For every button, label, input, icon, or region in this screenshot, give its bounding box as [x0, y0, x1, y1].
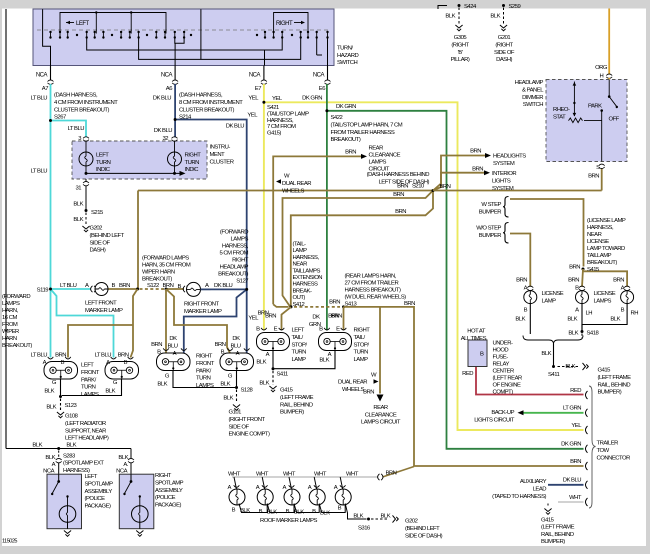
svg-text:BREAKOUT): BREAKOUT)	[142, 277, 172, 283]
svg-text:S424: S424	[464, 4, 477, 10]
svg-text:(RIGHT: (RIGHT	[495, 42, 513, 48]
svg-text:S422: S422	[331, 115, 343, 121]
svg-text:(POLICE: (POLICE	[155, 495, 176, 501]
svg-text:BLK: BLK	[353, 514, 363, 520]
svg-text:TURN: TURN	[292, 350, 307, 356]
svg-text:PARK/: PARK/	[81, 377, 97, 383]
svg-text:CLEARANCE: CLEARANCE	[365, 412, 397, 418]
svg-text:DK GRN: DK GRN	[302, 96, 322, 102]
svg-text:BLK: BLK	[45, 455, 55, 461]
svg-text:WHT: WHT	[256, 471, 269, 477]
svg-text:NCA: NCA	[313, 73, 325, 79]
svg-text:B: B	[575, 286, 579, 292]
svg-text:BRN: BRN	[215, 342, 226, 348]
svg-text:BUMPER): BUMPER)	[598, 390, 622, 396]
svg-text:PARK/: PARK/	[196, 368, 212, 374]
svg-text:LT BLU: LT BLU	[60, 283, 77, 289]
svg-text:HARNESS,: HARNESS,	[222, 244, 249, 250]
svg-text:BRN: BRN	[470, 149, 481, 155]
svg-text:LAMP: LAMP	[293, 248, 308, 254]
svg-text:B: B	[256, 327, 260, 333]
svg-text:ALL TIMES: ALL TIMES	[461, 336, 487, 342]
svg-text:BLK: BLK	[541, 351, 551, 357]
svg-text:BLK: BLK	[44, 389, 54, 395]
svg-text:LEFT: LEFT	[85, 474, 98, 480]
svg-text:HARNESS,: HARNESS,	[587, 225, 614, 231]
svg-text:BRN: BRN	[329, 300, 340, 306]
svg-text:4 CM FROM INSTRUMENT: 4 CM FROM INSTRUMENT	[54, 100, 118, 106]
svg-text:LAMPS CIRCUIT: LAMPS CIRCUIT	[361, 420, 401, 426]
svg-text:BLU: BLU	[231, 344, 241, 350]
svg-text:NEAR: NEAR	[293, 262, 308, 268]
svg-text:BLK: BLK	[118, 455, 128, 461]
svg-text:G415: G415	[598, 368, 612, 374]
svg-text:WHT: WHT	[228, 471, 241, 477]
svg-text:LICENSE: LICENSE	[594, 291, 616, 297]
svg-text:BLU: BLU	[168, 344, 178, 350]
svg-text:(TAIL/STOP LAMP: (TAIL/STOP LAMP	[267, 111, 309, 117]
svg-text:BREAKOUT): BREAKOUT)	[331, 137, 361, 143]
svg-text:BLK: BLK	[490, 14, 500, 20]
svg-text:RIGHT: RIGHT	[196, 354, 213, 360]
svg-text:DUAL REAR: DUAL REAR	[338, 380, 367, 386]
svg-text:TAIL/: TAIL/	[292, 335, 304, 341]
svg-text:B: B	[232, 508, 236, 514]
svg-text:31: 31	[75, 186, 81, 192]
svg-text:A: A	[173, 351, 177, 357]
svg-text:BACK-UP: BACK-UP	[491, 410, 514, 416]
svg-text:G305: G305	[454, 35, 468, 41]
svg-text:BRN: BRN	[440, 184, 451, 190]
svg-text:S215: S215	[91, 210, 104, 216]
svg-text:RAIL, BEHIND: RAIL, BEHIND	[541, 532, 574, 538]
svg-text:HOT AT: HOT AT	[467, 329, 486, 335]
svg-text:BRN: BRN	[386, 471, 397, 477]
svg-text:A: A	[283, 485, 287, 491]
svg-text:S: S	[596, 165, 600, 171]
svg-text:LEAD: LEAD	[533, 486, 547, 492]
svg-text:ROOF MARKER LAMPS: ROOF MARKER LAMPS	[260, 518, 318, 524]
svg-text:SIDE OF: SIDE OF	[494, 50, 515, 56]
svg-text:(DASH HARNESS BEHIND: (DASH HARNESS BEHIND	[367, 172, 430, 178]
svg-text:BLK: BLK	[223, 396, 233, 402]
svg-text:B: B	[157, 350, 161, 356]
svg-text:(W DUEL REAR WHEELS): (W DUEL REAR WHEELS)	[345, 295, 407, 301]
svg-text:NCA: NCA	[43, 469, 55, 475]
svg-text:WHT: WHT	[314, 471, 327, 477]
svg-text:UNDER-: UNDER-	[493, 341, 513, 347]
svg-text:RAIL, BEHIND: RAIL, BEHIND	[280, 402, 313, 408]
svg-text:BRN: BRN	[472, 167, 483, 173]
svg-text:YEL: YEL	[571, 423, 582, 429]
svg-text:TURN: TURN	[81, 385, 96, 391]
svg-text:(POLICE: (POLICE	[85, 496, 106, 502]
svg-text:CENTER: CENTER	[493, 369, 514, 375]
svg-text:WHT: WHT	[569, 495, 582, 501]
svg-text:B: B	[480, 352, 484, 358]
svg-text:BRN: BRN	[395, 209, 406, 215]
svg-text:HEADLIGHTS: HEADLIGHTS	[493, 154, 526, 160]
svg-text:LAMP: LAMP	[292, 357, 307, 363]
svg-text:TURN: TURN	[96, 160, 111, 166]
svg-text:(LEFT FRAME: (LEFT FRAME	[280, 395, 314, 401]
svg-text:LT BLU: LT BLU	[31, 96, 48, 102]
svg-text:NCA: NCA	[249, 73, 261, 79]
svg-text:ASSEMBLY: ASSEMBLY	[85, 489, 113, 495]
svg-text:SYSTEM: SYSTEM	[493, 161, 515, 167]
svg-text:TOW: TOW	[597, 448, 610, 454]
svg-text:W/O STEP: W/O STEP	[476, 226, 501, 232]
svg-text:BRN: BRN	[569, 265, 580, 271]
svg-text:BREAKOUT): BREAKOUT)	[218, 272, 248, 278]
svg-text:BRN: BRN	[397, 184, 408, 190]
svg-text:G101: G101	[229, 410, 242, 416]
svg-text:RIGHT: RIGHT	[276, 21, 293, 27]
svg-text:LEFT HEADLAMP): LEFT HEADLAMP)	[65, 436, 109, 442]
svg-text:HARN,: HARN,	[2, 308, 19, 314]
svg-text:BRN: BRN	[404, 301, 415, 307]
svg-text:HARNESS,: HARNESS,	[293, 255, 320, 261]
svg-text:STOP/: STOP/	[354, 342, 370, 348]
svg-text:S413: S413	[345, 302, 358, 308]
svg-text:(REAR LAMPS HARN,: (REAR LAMPS HARN,	[345, 274, 397, 280]
svg-text:A: A	[205, 283, 209, 289]
svg-text:CONNECTOR: CONNECTOR	[597, 455, 631, 461]
svg-text:W STEP: W STEP	[481, 202, 501, 208]
svg-text:CLUSTER BREAKOUT): CLUSTER BREAKOUT)	[179, 107, 235, 113]
svg-text:B: B	[338, 506, 342, 512]
svg-text:COMPT): COMPT)	[493, 390, 514, 396]
svg-text:(BEHIND LEFT: (BEHIND LEFT	[90, 233, 125, 239]
svg-text:WIPER: WIPER	[2, 329, 19, 335]
svg-text:S421: S421	[267, 105, 279, 111]
svg-text:B: B	[61, 360, 65, 366]
svg-text:RH: RH	[631, 311, 639, 317]
svg-text:DK: DK	[169, 336, 177, 342]
svg-text:BLK: BLK	[294, 510, 304, 516]
svg-text:HARNESS,: HARNESS,	[267, 118, 294, 124]
svg-text:TRAILER: TRAILER	[597, 441, 619, 447]
svg-text:FRONT: FRONT	[196, 361, 215, 367]
svg-text:BLK: BLK	[46, 405, 56, 411]
svg-text:TURN: TURN	[185, 160, 200, 166]
svg-text:TURN: TURN	[354, 350, 369, 356]
svg-text:DK GRN: DK GRN	[561, 442, 581, 448]
svg-text:BLK: BLK	[568, 331, 578, 337]
svg-text:OFF: OFF	[609, 117, 620, 123]
svg-text:RIGHT: RIGHT	[185, 153, 202, 159]
svg-text:BLK: BLK	[73, 202, 83, 208]
svg-text:BLK: BLK	[105, 389, 115, 395]
svg-text:16 CM: 16 CM	[2, 315, 17, 321]
svg-text:BRN: BRN	[55, 353, 66, 359]
svg-text:REAR: REAR	[373, 405, 388, 411]
svg-text:BRN: BRN	[613, 278, 624, 284]
svg-text:ORG: ORG	[595, 65, 608, 71]
svg-text:A: A	[228, 485, 232, 491]
svg-text:HARN: HARN	[2, 336, 17, 342]
svg-text:G108: G108	[65, 414, 79, 420]
svg-text:S128: S128	[241, 388, 254, 394]
svg-text:(LEFT REAR: (LEFT REAR	[493, 376, 523, 382]
svg-text:NCA: NCA	[116, 469, 128, 475]
svg-text:(SPOTLAMP EXT: (SPOTLAMP EXT	[63, 461, 104, 467]
svg-text:BLK: BLK	[73, 217, 83, 223]
svg-text:E7: E7	[255, 86, 261, 92]
svg-text:G201: G201	[498, 35, 511, 41]
svg-text:BLK: BLK	[381, 514, 391, 520]
svg-text:LEFT: LEFT	[81, 363, 94, 369]
svg-text:BLK: BLK	[220, 382, 230, 388]
svg-text:NCA: NCA	[161, 73, 173, 79]
svg-text:LAMP: LAMP	[354, 357, 369, 363]
svg-text:PACKAGE): PACKAGE)	[155, 503, 182, 509]
svg-text:BRN: BRN	[119, 283, 130, 289]
svg-text:RIGHT: RIGHT	[354, 328, 371, 334]
svg-text:G415: G415	[280, 388, 294, 394]
svg-text:BLK: BLK	[157, 382, 167, 388]
svg-text:A: A	[236, 351, 240, 357]
svg-text:A: A	[85, 283, 89, 289]
svg-text:S316: S316	[358, 526, 371, 532]
svg-text:DK: DK	[232, 336, 240, 342]
svg-text:LEFT: LEFT	[96, 153, 109, 159]
svg-text:CLUSTER: CLUSTER	[210, 160, 234, 166]
svg-text:AUXILIARY: AUXILIARY	[520, 479, 547, 485]
svg-text:HARN, 35 CM FROM: HARN, 35 CM FROM	[142, 263, 191, 269]
svg-text:115025: 115025	[2, 539, 17, 545]
svg-text:LAMPS: LAMPS	[594, 298, 612, 304]
svg-text:BRN: BRN	[570, 459, 581, 465]
svg-text:G415): G415)	[267, 131, 281, 137]
svg-text:REAR: REAR	[369, 146, 384, 152]
svg-text:TAILLAMPS: TAILLAMPS	[293, 268, 321, 274]
svg-text:27 CM FROM TRAILER: 27 CM FROM TRAILER	[345, 281, 399, 287]
svg-text:LT BLU: LT BLU	[31, 169, 48, 175]
svg-text:A: A	[256, 485, 260, 491]
svg-text:HEADLAMP: HEADLAMP	[220, 265, 249, 271]
svg-text:G202: G202	[90, 226, 103, 232]
svg-text:S210: S210	[412, 184, 425, 190]
svg-text:HAZARD: HAZARD	[337, 53, 358, 59]
svg-text:S283: S283	[63, 454, 76, 460]
svg-text:HEADLAMP: HEADLAMP	[515, 80, 544, 86]
svg-text:LH: LH	[586, 311, 593, 317]
svg-text:SIDE OF DASH): SIDE OF DASH)	[405, 533, 443, 539]
svg-text:ASSEMBLY: ASSEMBLY	[155, 488, 183, 494]
svg-text:DASH): DASH)	[496, 57, 512, 63]
svg-text:LEFT FRONT: LEFT FRONT	[85, 301, 117, 307]
svg-text:H: H	[600, 74, 604, 80]
svg-text:RIGHT: RIGHT	[155, 473, 172, 479]
svg-text:A: A	[575, 308, 579, 314]
svg-text:8 CM FROM INSTRUMENT: 8 CM FROM INSTRUMENT	[179, 100, 243, 106]
svg-text:BRN: BRN	[258, 311, 269, 317]
svg-text:S418: S418	[587, 331, 600, 337]
svg-text:B: B	[312, 509, 316, 515]
svg-text:BLK: BLK	[259, 381, 269, 387]
svg-text:CLUSTER BREAKOUT): CLUSTER BREAKOUT)	[54, 107, 110, 113]
svg-text:MENT: MENT	[210, 152, 226, 158]
svg-text:BLK: BLK	[610, 317, 620, 323]
svg-text:SPOTLAMP: SPOTLAMP	[155, 480, 184, 486]
svg-text:BUMPER): BUMPER)	[541, 539, 565, 545]
svg-text:OUT): OUT)	[293, 295, 306, 301]
svg-text:BLK: BLK	[445, 14, 455, 20]
svg-text:(RIGHT FRONT: (RIGHT FRONT	[229, 417, 266, 423]
svg-text:MARKER LAMP: MARKER LAMP	[184, 309, 222, 315]
svg-text:SWITCH: SWITCH	[523, 102, 543, 108]
svg-text:BRN: BRN	[588, 174, 599, 180]
svg-text:S411: S411	[548, 372, 560, 378]
svg-text:INSTRU-: INSTRU-	[210, 145, 231, 151]
svg-text:A: A	[308, 485, 312, 491]
svg-text:LAMPS: LAMPS	[231, 237, 249, 243]
svg-text:G202: G202	[405, 519, 418, 525]
svg-text:TURN/: TURN/	[337, 46, 353, 52]
svg-text:YEL: YEL	[248, 96, 259, 102]
svg-text:S411: S411	[277, 372, 289, 378]
svg-text:B: B	[621, 308, 625, 314]
svg-text:BLK: BLK	[319, 358, 329, 364]
svg-text:BRN: BRN	[393, 192, 404, 198]
svg-text:S259: S259	[509, 4, 521, 10]
svg-text:BLK: BLK	[256, 360, 266, 366]
svg-text:LEFT: LEFT	[76, 21, 90, 27]
svg-text:LT BLU: LT BLU	[68, 126, 85, 132]
svg-text:TURN: TURN	[196, 376, 211, 382]
svg-text:RED: RED	[570, 388, 581, 394]
svg-text:(TAIL/STOP LAMP HARN, 7 CM: (TAIL/STOP LAMP HARN, 7 CM	[331, 122, 403, 128]
svg-text:BRN: BRN	[345, 150, 356, 156]
svg-text:(LEFT RADIATOR: (LEFT RADIATOR	[65, 421, 106, 427]
svg-text:E: E	[274, 327, 278, 333]
svg-text:& PANEL: & PANEL	[522, 87, 544, 93]
svg-text:(TAPED TO HARNESS): (TAPED TO HARNESS)	[492, 494, 546, 500]
svg-text:SIDE OF: SIDE OF	[90, 240, 111, 246]
svg-text:LT BLU: LT BLU	[95, 353, 112, 359]
svg-text:BLK: BLK	[320, 511, 330, 517]
svg-text:B: B	[286, 509, 290, 515]
svg-text:DK BLU: DK BLU	[153, 96, 172, 102]
svg-text:BLK: BLK	[66, 443, 76, 449]
svg-text:STOP/: STOP/	[292, 342, 308, 348]
svg-text:LIGHTS CIRCUIT: LIGHTS CIRCUIT	[474, 417, 515, 423]
svg-text:S127: S127	[236, 279, 248, 285]
svg-text:A: A	[266, 352, 270, 358]
svg-text:(FORWARD: (FORWARD	[2, 294, 30, 300]
svg-text:LIGHTS: LIGHTS	[492, 178, 511, 184]
svg-text:DK BLU: DK BLU	[214, 283, 233, 289]
svg-text:BRN: BRN	[516, 278, 527, 284]
svg-text:BRN: BRN	[118, 353, 129, 359]
svg-text:CLEARANCE: CLEARANCE	[369, 153, 401, 159]
svg-text:BRN: BRN	[568, 278, 579, 284]
svg-text:A7: A7	[42, 86, 48, 92]
svg-text:OF ENGINE: OF ENGINE	[493, 383, 521, 389]
svg-text:INDIC: INDIC	[185, 167, 200, 173]
svg-text:(LEFT FRAME: (LEFT FRAME	[541, 525, 575, 531]
svg-text:S122: S122	[147, 283, 159, 289]
svg-text:SPOTLAMP: SPOTLAMP	[85, 481, 114, 487]
svg-text:SIDE OF: SIDE OF	[229, 424, 250, 430]
svg-text:FUSE-: FUSE-	[493, 355, 509, 361]
svg-text:RELAY: RELAY	[493, 362, 510, 368]
svg-text:(FORWARD LAMPS: (FORWARD LAMPS	[142, 256, 189, 262]
svg-text:'B': 'B'	[458, 50, 463, 56]
svg-text:(FORWARD: (FORWARD	[220, 230, 248, 236]
svg-text:BRN: BRN	[363, 390, 374, 396]
svg-text:DK BLU: DK BLU	[154, 128, 173, 134]
svg-text:(LICENSE LAMP: (LICENSE LAMP	[587, 218, 626, 224]
svg-text:A: A	[43, 360, 47, 366]
svg-text:HARNESS: HARNESS	[293, 282, 319, 288]
svg-text:S119: S119	[37, 288, 49, 294]
svg-text:RAIL, BEHIND: RAIL, BEHIND	[598, 382, 631, 388]
svg-text:BUMPER: BUMPER	[479, 209, 501, 215]
svg-text:B: B	[178, 284, 182, 290]
svg-text:B: B	[259, 509, 263, 515]
svg-text:(DASH HARNESS,: (DASH HARNESS,	[54, 93, 98, 99]
svg-text:TAILLAMP: TAILLAMP	[587, 253, 612, 259]
svg-text:CIRCUIT: CIRCUIT	[369, 167, 390, 173]
svg-text:PILLAR): PILLAR)	[451, 57, 470, 63]
svg-text:FRONT: FRONT	[81, 370, 100, 376]
svg-text:BREAKOUT): BREAKOUT)	[587, 260, 617, 266]
svg-text:DK BLU: DK BLU	[226, 124, 245, 130]
svg-text:HOOD: HOOD	[493, 348, 509, 354]
svg-text:LAMPS: LAMPS	[196, 383, 214, 389]
svg-text:S412: S412	[293, 302, 305, 308]
svg-text:(DASH HARNESS,: (DASH HARNESS,	[179, 93, 223, 99]
svg-text:INDIC: INDIC	[96, 167, 111, 173]
svg-text:BRN: BRN	[163, 283, 174, 289]
svg-text:5 CM FROM: 5 CM FROM	[219, 251, 248, 257]
svg-text:EXTENSION: EXTENSION	[293, 275, 323, 281]
svg-text:SYSTEM: SYSTEM	[492, 186, 514, 192]
svg-text:A: A	[621, 286, 625, 292]
svg-text:ENGINE COMPT): ENGINE COMPT)	[229, 432, 270, 438]
svg-text:(LEFT FRAME: (LEFT FRAME	[598, 375, 632, 381]
svg-text:WHT: WHT	[283, 471, 296, 477]
svg-text:DK GRN: DK GRN	[336, 104, 356, 110]
svg-text:S123: S123	[65, 403, 78, 409]
svg-text:B: B	[319, 327, 323, 333]
svg-text:WHEELS: WHEELS	[282, 189, 304, 195]
svg-text:FROM TRAILER HARNESS: FROM TRAILER HARNESS	[331, 130, 395, 136]
svg-text:WHEELS: WHEELS	[342, 387, 364, 393]
svg-text:RIGHT FRONT: RIGHT FRONT	[184, 302, 220, 308]
svg-text:B: B	[221, 350, 225, 356]
svg-text:LT GRN: LT GRN	[563, 406, 581, 412]
svg-text:MARKER LAMP: MARKER LAMP	[85, 308, 123, 314]
svg-text:LAMPS: LAMPS	[2, 301, 20, 307]
svg-text:RED: RED	[462, 371, 473, 377]
svg-text:LAMPS: LAMPS	[369, 160, 387, 166]
svg-text:DK BLU: DK BLU	[563, 478, 582, 484]
svg-text:LEFT: LEFT	[292, 328, 305, 334]
svg-text:BREAK-: BREAK-	[293, 288, 312, 294]
svg-text:LT BLU: LT BLU	[31, 353, 48, 359]
svg-text:B: B	[112, 283, 116, 289]
svg-text:RIGHT: RIGHT	[232, 258, 249, 264]
svg-text:DIMMER: DIMMER	[522, 95, 543, 101]
svg-text:PACKAGE): PACKAGE)	[85, 504, 112, 510]
svg-text:B: B	[124, 360, 128, 366]
svg-text:LICENSE: LICENSE	[542, 291, 564, 297]
svg-text:LAMP: LAMP	[542, 298, 557, 304]
svg-text:BREAKOUT): BREAKOUT)	[2, 343, 32, 349]
